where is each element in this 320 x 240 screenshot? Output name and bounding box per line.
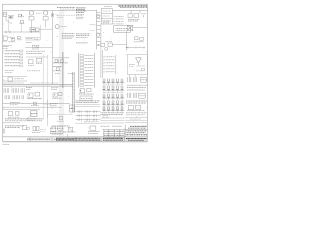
terminal tick pair [6,31,10,33]
page footer text [3,142,148,144]
relay bank left [8,111,20,117]
connector pin group 4 [5,95,10,99]
relay K2 [3,36,7,42]
motor M2 [41,11,49,20]
disconnect switch [127,25,133,30]
wire disconnect out [133,27,148,29]
lower right note rows [126,113,147,115]
distribution rail [96,10,98,49]
breaker pair CB1 [32,126,40,132]
heater hatch group 2 [133,75,136,83]
heater box HB1 [141,77,146,82]
inline fuse F3 [31,102,39,105]
title block company row [128,126,147,128]
fuse pair F1 F2 [32,45,39,49]
control labels [26,38,33,42]
junction box JB1 [23,126,27,130]
left border terminal marks [3,129,5,134]
connector pin group 5 [13,95,19,99]
relay pair lower right [127,105,145,110]
interlock text rows light [76,14,84,18]
notes block centre [62,34,75,39]
device D2 [36,58,42,63]
vertical feeder rail [51,11,53,85]
wire bus row 2 [3,31,40,33]
connector pin group 3 [21,88,24,93]
pilot device [34,38,39,40]
device D1 [28,60,34,66]
title block rule 1 [125,128,147,130]
contactor block [8,37,15,42]
title block divider [124,125,126,137]
aux device [141,14,147,18]
feeder list rows [114,16,124,25]
wire junction dots [10,15,127,109]
title strip shading [27,138,147,141]
heater hatch group 1 [128,75,131,83]
title strip drawing number cell [126,139,147,141]
starter S2 [36,28,39,31]
transformer T2 cluster [128,13,140,21]
bus text band [76,101,100,103]
component cluster B [20,20,25,23]
fuse block pair [134,37,144,42]
wire pair row 4 [3,77,27,82]
panel box P1 [31,111,37,117]
wire stub row [3,45,12,47]
breaker bank row 1 [103,79,125,86]
indicator lamp [27,127,46,132]
wires under schedule [101,118,125,123]
bus label band [3,83,73,86]
wire starter out [39,25,53,40]
breaker list rows [104,56,115,73]
motor M1 [29,11,40,20]
rail branch labels [90,25,96,31]
bus duct vertical [72,72,74,113]
cluster drop wire [63,132,76,137]
wire top feeder [3,10,97,12]
title strip notes text mid [54,138,74,140]
wire meter out [112,44,127,46]
top centre drawing title text [57,8,75,10]
hopper symbol [136,58,142,66]
selector switch SS1 [68,127,73,131]
ladder lower devices [79,88,94,94]
junction device J2 [88,126,100,133]
breaker bank row 2 [103,86,125,93]
material table grid [103,129,124,137]
contact group with labels [8,16,15,19]
wire band continuation [30,82,58,84]
terminal ladder rails [79,53,95,88]
panel drop wire [100,24,102,50]
wire pair under band [76,105,101,107]
heater hatch group 4 [133,93,136,98]
title strip cell dividers [30,137,125,142]
breaker bank row 5 [103,106,125,113]
connector pin group 1 [4,88,9,93]
bottom centre logic cluster [50,126,70,135]
interlock text rows dark [76,8,86,12]
terminal ladder rungs [80,55,93,87]
breaker bank labels [103,85,123,92]
branch text rows [51,88,59,90]
valve symbol pair [51,14,58,17]
hatch wire row 1 [76,111,101,113]
breaker bank row 3 [103,94,125,101]
wire row 6 [3,122,20,124]
bus top labels [68,73,75,75]
auxiliary contact [17,36,22,39]
double rail mid [101,50,102,78]
starter S1 [30,28,35,32]
meter M3 [101,41,113,50]
lower right text band [126,101,147,103]
signal list footnote [5,71,14,73]
wire top right [112,9,147,11]
title strip notes text left [27,138,50,140]
top notes column header [104,5,112,7]
title strip top rule [3,136,148,138]
terminal labels [3,47,9,49]
riser stubs top right [131,10,140,13]
heater hatch group 3 [128,93,131,98]
load schedule band [101,113,125,118]
branch labels [26,88,33,90]
mid right label rows [127,85,148,90]
enclosure internals right [136,66,146,71]
wire motor M2 drop [45,20,47,27]
lower right wires [125,118,147,123]
conduit riser line [63,52,64,88]
labelled box LB1 [114,26,131,33]
wire row lower right [126,47,145,49]
connector pin group 2 [12,88,18,93]
mid fold labels [27,70,40,72]
wire long row 5 [3,103,70,105]
device label stack [50,103,58,107]
relay group K4 [27,92,42,98]
title strip fine print row 1 [56,137,100,139]
relay K1 [3,12,7,16]
bus tap box [70,105,75,112]
connector pin group 6 [22,95,24,99]
distribution panel DP1 [101,9,112,24]
breaker list rail [115,55,117,75]
conduit riser [43,55,47,118]
notes block right [76,34,90,37]
title strip fine print row 2 [56,139,100,141]
note rows mid-left [26,51,45,53]
component cluster A [18,14,24,17]
wire pair mid [25,38,40,41]
breaker bank row 4 [103,101,125,108]
signal list table [5,50,23,67]
material table text [104,131,124,135]
wire row 47 [25,46,52,48]
hatch wire row 3 [76,119,101,121]
hatch wire row 4 [76,122,101,123]
wire row 57 [26,56,48,58]
wire diagonal to panel [26,104,50,119]
right rail [126,31,128,50]
title block text rows [127,131,148,135]
terminal cluster T1 [53,58,69,63]
legend text pair [101,125,123,127]
heater box HB2 [139,93,146,98]
single note row [76,42,88,44]
wire diagonal branch [6,16,22,32]
hatch wire row 2 [76,115,101,117]
relay group K5 [52,92,62,98]
terminal row labels dark [5,119,44,121]
equipment enclosure [127,55,147,75]
control unit box [80,96,92,101]
rail branch stubs [97,13,101,46]
terminal cluster T2 [53,66,62,70]
small device E5 [48,114,73,121]
panel labels [27,119,36,121]
wire motor M1 drop [31,20,33,32]
enclosure internals left [129,65,135,67]
relay K3 [8,77,24,81]
title strip part numbers [103,138,123,140]
inline device labels [10,102,20,104]
wire double row [3,107,62,109]
drain symbol [55,72,60,74]
riser wire right [47,100,49,126]
top right revision header row [119,6,148,7]
cable tag text [5,126,24,128]
dashed control line [57,15,75,17]
CT circle pair [97,15,100,37]
gauge G1 [55,25,66,29]
